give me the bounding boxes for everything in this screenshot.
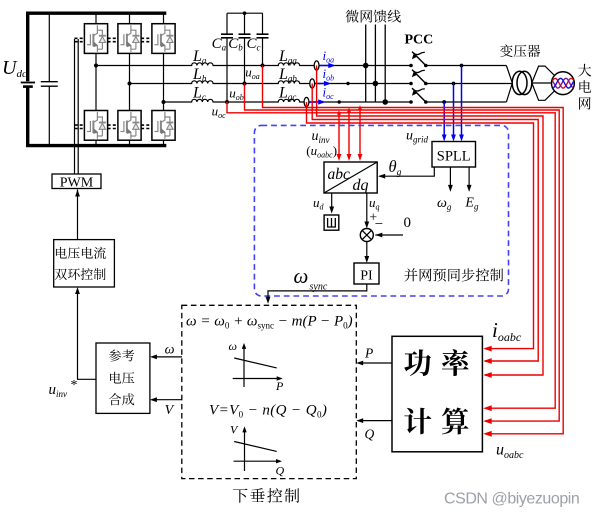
- wire uoa feedback: [263, 66, 564, 437]
- wire phase b inverter to PCC: [130, 83, 412, 85]
- wire SPLL Eg out: [467, 167, 472, 192]
- label uinv: [312, 129, 330, 145]
- node ugrid tap phase c: [442, 100, 446, 104]
- wire iob feedback: [312, 84, 538, 364]
- wire ugrid phase a to SPLL: [459, 66, 464, 142]
- svg-text:abc: abc: [328, 166, 351, 183]
- igbt module upper phase b: [118, 24, 141, 54]
- inductor La: [192, 60, 213, 67]
- svg-text:ω: ω: [165, 343, 175, 358]
- wire uob feedback: [245, 84, 560, 425]
- block reference voltage synthesis: [96, 343, 150, 413]
- current sensor phase a: [314, 61, 319, 70]
- label PCC: [405, 33, 434, 48]
- svg-text:ω: ω: [229, 339, 237, 353]
- label iob: [323, 66, 335, 83]
- capacitor Cb: [239, 13, 251, 83]
- label omega-sync: [294, 264, 328, 293]
- wire ugrid phase c to SPLL: [442, 102, 447, 142]
- label theta-g: [389, 157, 402, 178]
- wire P out: [356, 361, 392, 366]
- label Lgb: [278, 66, 297, 84]
- block power calculation: [392, 336, 482, 452]
- igbt module upper phase a: [84, 24, 107, 54]
- droop graph V-Q: [230, 423, 285, 478]
- label Cc: [247, 36, 261, 53]
- label ioa: [323, 48, 335, 65]
- current sensor phase c: [304, 97, 309, 106]
- svg-text:SPLL: SPLL: [437, 149, 471, 165]
- gate bus dashed lower a: [75, 124, 152, 126]
- wire phase c inverter to PCC: [164, 101, 412, 103]
- dc-link capacitor: [41, 13, 58, 145]
- wire Q out: [356, 418, 392, 423]
- label uoabc: [496, 442, 524, 462]
- capacitor Ca: [221, 13, 233, 102]
- current sensor phase b: [310, 79, 315, 88]
- inductor Lga: [278, 60, 299, 67]
- label presync control: [404, 268, 503, 281]
- current arrow ioa: [320, 63, 336, 68]
- node phase b midpoint: [128, 82, 132, 86]
- label uq: [369, 195, 380, 212]
- wire phase a inverter to PCC: [96, 65, 411, 67]
- wire zero to mixer: [375, 233, 403, 238]
- svg-text:−: −: [375, 217, 383, 233]
- label droop equation omega: [186, 314, 353, 331]
- label uob: [229, 86, 244, 103]
- wire SPLL theta to abc-dq: [378, 167, 434, 179]
- capacitor neutral rail: [227, 11, 263, 15]
- feeder line 1: [363, 25, 369, 103]
- label Lb: [192, 66, 207, 84]
- label minus: [375, 217, 383, 233]
- wire droop V out: [150, 397, 182, 402]
- svg-text:PCC: PCC: [405, 33, 434, 48]
- wire uq: [364, 193, 369, 229]
- inductor Lc: [192, 96, 213, 103]
- label Udc: [2, 57, 27, 80]
- wire three-phase converge left: [506, 66, 512, 103]
- wire dc column phase b: [129, 13, 131, 145]
- label big grid: [578, 64, 591, 110]
- label P: [364, 346, 373, 361]
- label ioabc: [492, 318, 522, 344]
- label omega-g: [437, 196, 452, 212]
- node phase c small: [338, 100, 341, 103]
- label ugrid: [406, 129, 429, 145]
- label plus: [369, 211, 377, 226]
- label droop equation V: [209, 403, 327, 420]
- current arrow ioc: [310, 99, 326, 104]
- wire three-phase diverge right: [532, 66, 554, 100]
- gate bus dashed upper b: [75, 41, 152, 43]
- svg-text:ω: ω: [294, 264, 309, 288]
- droop control dashed box: [182, 305, 356, 478]
- inductor Lgc: [278, 96, 299, 103]
- svg-text:PWM: PWM: [60, 175, 94, 190]
- igbt module upper phase c: [152, 24, 175, 54]
- label transformer: [500, 44, 540, 57]
- gate bus dashed upper a: [75, 37, 152, 39]
- label uoa: [245, 65, 260, 82]
- wire phase b PCC to transformer: [426, 83, 506, 85]
- droop graph omega-P: [229, 339, 285, 393]
- node ugrid tap phase a: [460, 64, 464, 68]
- label ioc: [323, 85, 335, 102]
- inductor Lgb: [278, 78, 299, 85]
- wire uinv branch c: [337, 110, 342, 161]
- svg-text:0: 0: [404, 215, 412, 231]
- wire droop omega out: [150, 355, 182, 360]
- block ud hold: [324, 215, 339, 230]
- breaker PCC phase b: [409, 70, 427, 86]
- feeder line 2: [373, 25, 379, 103]
- wire ugrid phase b to SPLL: [451, 84, 456, 142]
- wire SPLL omega-g out: [448, 167, 453, 192]
- transformer: [512, 71, 532, 94]
- wire phase a PCC to transformer: [426, 65, 506, 67]
- label Lgc: [278, 85, 296, 103]
- wire uinv branch b: [347, 108, 352, 161]
- capacitor Cc: [257, 13, 269, 65]
- block abc-dq transform: [324, 162, 377, 194]
- igbt module lower phase b: [118, 111, 141, 141]
- utility grid source: [552, 72, 575, 95]
- dc bus bottom rail: [26, 144, 166, 147]
- node phase c midpoint: [162, 100, 166, 104]
- block PWM: [52, 174, 101, 190]
- dc bus top rail: [26, 11, 166, 14]
- label La: [192, 48, 207, 66]
- label ud: [313, 195, 325, 212]
- node Cc tap: [261, 64, 265, 68]
- svg-text:dq: dq: [353, 177, 369, 194]
- breaker PCC phase a: [409, 52, 427, 68]
- wire mixer to PI: [364, 242, 369, 264]
- label microgrid feeder: [346, 10, 401, 23]
- svg-text:Q: Q: [276, 464, 285, 478]
- wire ud: [329, 193, 334, 214]
- wire ioc feedback: [307, 102, 534, 352]
- feeder line 3: [382, 25, 388, 105]
- node Cb tap: [243, 82, 247, 86]
- wire PI to droop: [266, 284, 367, 304]
- presync control dashed box: [254, 125, 508, 296]
- label droop control: [233, 488, 299, 503]
- svg-text:CSDN @biyezuopin: CSDN @biyezuopin: [444, 491, 579, 508]
- wire controller to PWM: [75, 190, 80, 240]
- igbt module lower phase c: [152, 111, 175, 141]
- current arrow iob: [315, 81, 331, 86]
- gate bus dashed lower b: [75, 128, 152, 130]
- label Eg: [464, 196, 479, 212]
- label Cb: [228, 36, 243, 53]
- svg-text:P: P: [364, 346, 373, 361]
- svg-text:Q: Q: [365, 427, 375, 442]
- inductor Lb: [192, 78, 213, 85]
- dc source Udc: [21, 13, 35, 145]
- label Lga: [278, 48, 297, 66]
- label V out: [165, 403, 175, 418]
- wire dc column phase a: [95, 13, 97, 145]
- label uoabc paren: [306, 143, 337, 160]
- wire uoc feedback: [227, 102, 555, 411]
- node Ca tap: [225, 100, 229, 104]
- summing junction: [360, 229, 373, 242]
- svg-text:V=V0 − n(Q − Q0): V=V0 − n(Q − Q0): [209, 403, 327, 420]
- wire phase c PCC to transformer: [426, 101, 506, 103]
- wire gate drive lines: [75, 39, 79, 174]
- label omega out: [165, 343, 175, 358]
- node ugrid tap phase b: [452, 82, 456, 86]
- label uinv-star: [49, 378, 78, 399]
- svg-text:P: P: [275, 379, 284, 393]
- label Lc: [192, 85, 206, 103]
- igbt module lower phase a: [84, 111, 107, 141]
- wire dc column phase c: [163, 13, 165, 145]
- svg-text:V: V: [165, 403, 175, 418]
- block SPLL: [432, 142, 476, 168]
- wire refvolt to controller: [75, 287, 96, 379]
- node phase b small: [346, 82, 349, 85]
- block voltage-current dual loop: [54, 240, 115, 287]
- label zero: [404, 215, 412, 231]
- watermark: [444, 491, 579, 508]
- wire ioa feedback: [317, 66, 543, 378]
- breaker PCC phase c: [409, 88, 427, 104]
- node phase a midpoint: [94, 64, 98, 68]
- label Q: [365, 427, 375, 442]
- block PI: [354, 263, 379, 284]
- label uoc: [212, 104, 227, 121]
- svg-text:PI: PI: [360, 269, 373, 284]
- wire uinv branch a: [358, 105, 363, 161]
- label Ca: [212, 36, 227, 53]
